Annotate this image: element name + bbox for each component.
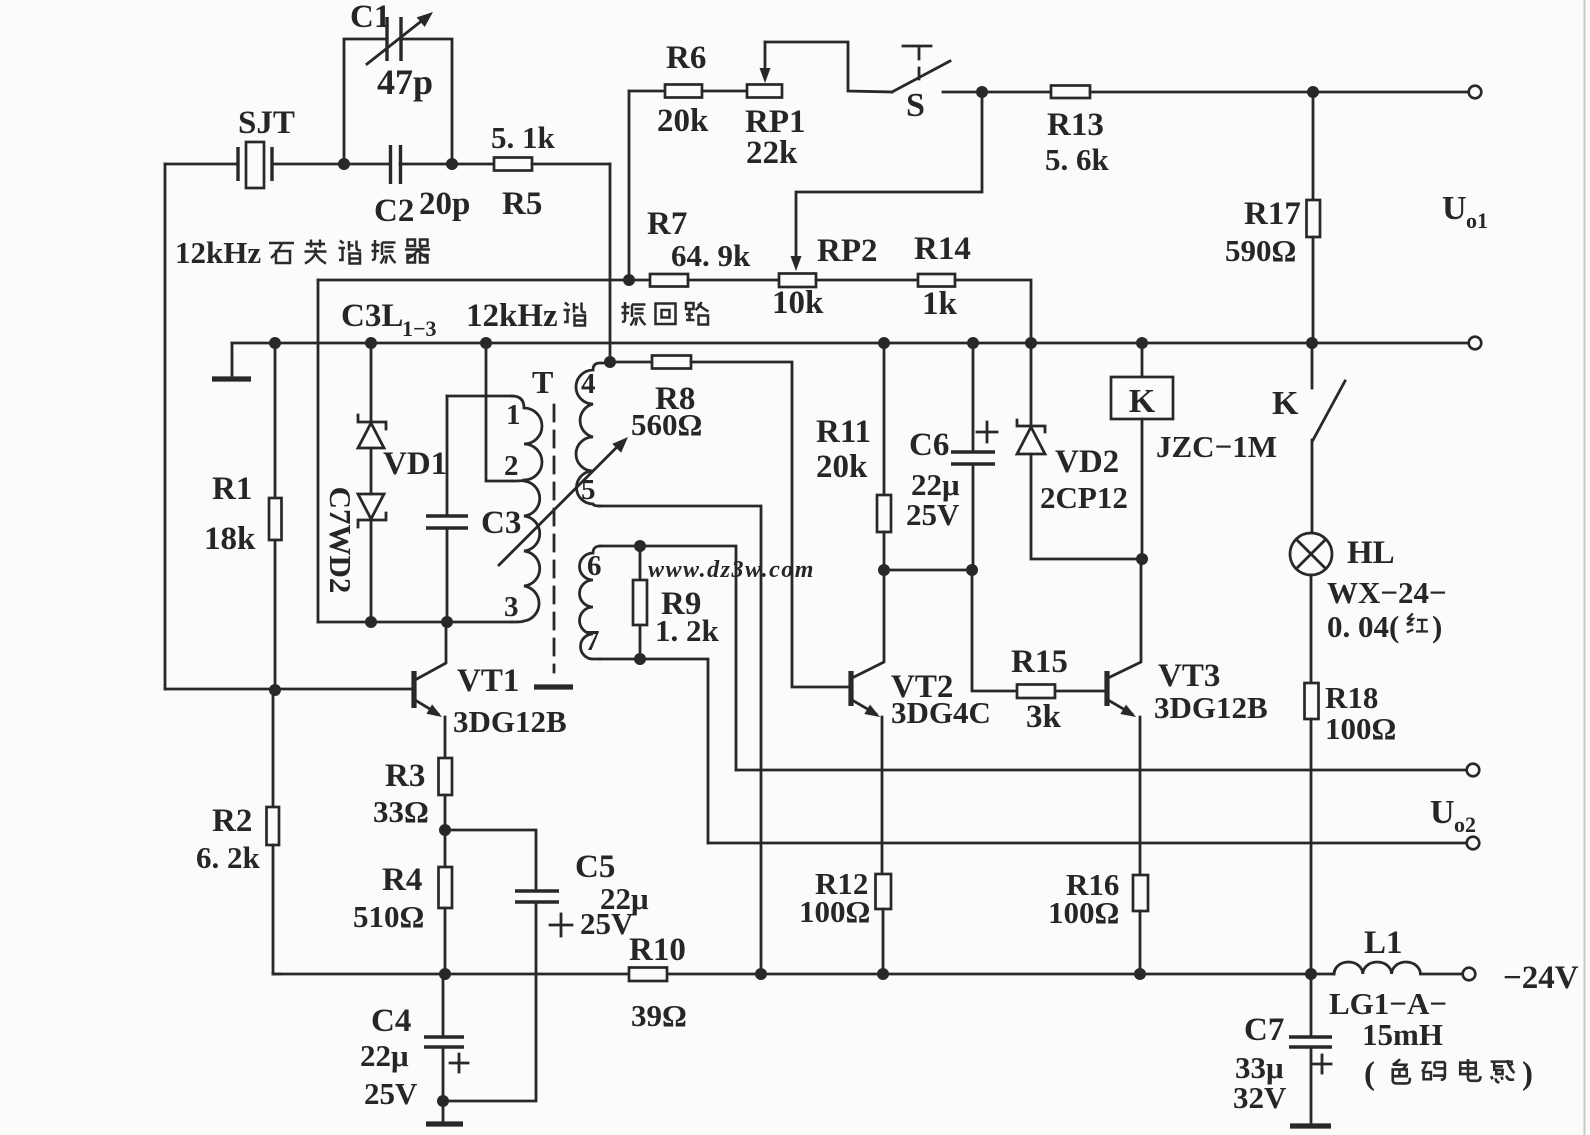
svg-text:T: T <box>532 364 553 400</box>
resistor R9 <box>633 580 647 625</box>
capacitor C1 variable arrow <box>367 19 424 64</box>
node R17 top junction dot <box>1307 86 1319 98</box>
svg-text:R2: R2 <box>212 803 252 839</box>
svg-text:6. 2k: 6. 2k <box>196 840 261 875</box>
svg-text:VD2: VD2 <box>1055 444 1119 480</box>
svg-text:R14: R14 <box>914 231 971 267</box>
relay K coil box <box>1111 377 1173 419</box>
svg-text:LG1−A−: LG1−A− <box>1329 986 1447 1021</box>
svg-text:39Ω: 39Ω <box>631 998 687 1033</box>
wire bottom rail <box>273 973 1334 976</box>
wire VD1 bottom lead <box>370 520 373 622</box>
svg-text:K: K <box>1129 383 1156 420</box>
node bus VD2 dot <box>1025 337 1037 349</box>
transistor VT2 collector <box>852 570 884 678</box>
wire VD1 middle <box>370 448 373 494</box>
wire Uo2 lower line <box>708 842 1467 845</box>
wire left feedback vertical <box>164 164 167 689</box>
wire node A to C2 <box>344 163 390 166</box>
svg-text:20p: 20p <box>419 186 470 222</box>
transistor VT1 base bar <box>411 671 416 708</box>
wire C3 bottom lead <box>446 528 449 622</box>
svg-text:5: 5 <box>581 474 596 506</box>
svg-text:25V: 25V <box>906 497 960 532</box>
resistor R15 <box>1017 685 1055 699</box>
terminal bus right circle <box>1469 337 1482 350</box>
resistor R11 <box>877 495 891 532</box>
label hong <box>1407 613 1428 632</box>
resistor R1 <box>269 498 282 540</box>
inductor T secondary winding pins 6-7 <box>580 546 601 659</box>
diode VD2 cathode bar <box>1017 420 1045 432</box>
svg-text:C1: C1 <box>350 0 390 35</box>
svg-text:100Ω: 100Ω <box>799 894 870 929</box>
svg-text:560Ω: 560Ω <box>631 407 702 442</box>
terminal Uo2 upper circle <box>1467 764 1480 777</box>
svg-text:3DG12B: 3DG12B <box>453 704 567 739</box>
svg-text:1k: 1k <box>922 286 958 322</box>
wire HL to R18 <box>1310 575 1313 683</box>
svg-text:JZC−1M: JZC−1M <box>1156 429 1277 464</box>
lamp HL circle <box>1290 533 1332 575</box>
node bus contact K dot <box>1306 337 1318 349</box>
wire R11 top lead <box>883 343 886 495</box>
wire R17 bottom lead <box>1312 237 1315 343</box>
node R11 bottom dot <box>878 564 890 576</box>
label zhenhuilu <box>622 302 646 326</box>
wire R15 to VT3 base <box>1055 690 1105 693</box>
node R16 rail dot <box>1134 968 1146 980</box>
terminal Uo2 lower circle <box>1467 837 1480 850</box>
wire pin1 horizontal <box>447 395 512 398</box>
svg-text:18k: 18k <box>204 521 256 557</box>
transistor VT3 base bar <box>1104 671 1109 706</box>
wire R7 to RP2 <box>688 279 779 282</box>
switch K contact stub <box>1311 343 1314 388</box>
wire relay K bottom lead <box>1141 419 1144 559</box>
svg-text:0. 04(: 0. 04( <box>1327 609 1399 644</box>
node R12 rail dot <box>877 968 889 980</box>
diode VD1 upper zener bar <box>358 415 386 429</box>
wire C4 top lead <box>442 974 445 1037</box>
svg-text:): ) <box>1522 1056 1533 1092</box>
wire R2 top lead <box>272 690 275 807</box>
svg-text:C6: C6 <box>909 427 949 463</box>
wire S right contact <box>943 91 982 94</box>
wire R5 drop vertical <box>609 164 612 362</box>
svg-text:WX−24−: WX−24− <box>1327 575 1447 610</box>
svg-text:10k: 10k <box>772 285 824 321</box>
svg-text:64. 9k: 64. 9k <box>671 238 751 273</box>
diode VD1 lower zener triangle <box>358 494 384 519</box>
svg-text:15mH: 15mH <box>1362 1017 1443 1052</box>
node bus C6 dot <box>967 337 979 349</box>
node bus VD1 dot <box>365 337 377 349</box>
label xie tank <box>564 303 587 326</box>
svg-text:R13: R13 <box>1047 107 1104 143</box>
svg-text:RP2: RP2 <box>817 233 878 269</box>
svg-text:100Ω: 100Ω <box>1325 711 1396 746</box>
capacitor C4 plus sign <box>450 1062 468 1065</box>
resistor R3 <box>439 758 453 795</box>
transistor VT3 emitter <box>1108 700 1132 714</box>
svg-text:25V: 25V <box>580 906 634 941</box>
svg-text:6: 6 <box>587 550 602 582</box>
wire pin4 to R8 <box>610 361 652 364</box>
capacitor C1 plates <box>385 17 388 61</box>
wire R5 to drop corner <box>532 163 610 166</box>
ground main left stub <box>231 343 234 375</box>
svg-text:U: U <box>1430 794 1455 831</box>
svg-text:R10: R10 <box>629 932 686 968</box>
wire C7 bottom lead <box>1310 1047 1313 1122</box>
potentiometer RP1 wiper arrow <box>764 42 767 70</box>
label shiyingxiezhenqi <box>269 243 294 263</box>
node VD1 tank-rail dot <box>365 616 377 628</box>
wire R7 line left segment <box>318 279 650 282</box>
svg-text:−24V: −24V <box>1503 960 1579 996</box>
wire VD2 top lead <box>1030 343 1033 426</box>
wire RP2 to R14 <box>816 279 918 282</box>
wire R11 bottom lead <box>883 532 886 570</box>
resistor R6 <box>665 85 702 98</box>
node R1 base-wire dot <box>269 684 281 696</box>
switch K contact blade <box>1313 381 1345 440</box>
svg-text:U: U <box>1442 190 1467 227</box>
resistor R16 <box>1133 875 1148 911</box>
wire top line to Uo1 terminal <box>1313 91 1469 94</box>
transistor VT1 collector <box>415 622 446 680</box>
capacitor C7 plates <box>1289 1035 1332 1038</box>
node C7 rail dot <box>1305 968 1317 980</box>
wire VT2 emitter lead <box>881 717 884 874</box>
svg-text:510Ω: 510Ω <box>353 899 424 934</box>
capacitor C7 plus sign <box>1313 1063 1331 1066</box>
resistor R10 <box>629 968 667 982</box>
wire C3 top lead <box>446 396 449 516</box>
svg-text:2CP12: 2CP12 <box>1040 480 1128 515</box>
potentiometer RP1 body <box>747 85 782 98</box>
resistor R8 <box>652 356 691 369</box>
svg-text:(: ( <box>1364 1056 1375 1092</box>
ground C4 bar <box>426 1121 463 1126</box>
inductor L1 <box>1334 962 1463 974</box>
wire R6 branch vertical <box>628 91 631 280</box>
svg-text:7: 7 <box>585 625 600 657</box>
svg-text:2: 2 <box>504 450 519 482</box>
svg-text:C5: C5 <box>575 849 615 885</box>
wire R1 top lead <box>274 343 277 498</box>
resistor R9 top lead <box>639 546 642 580</box>
wire R3 to R4 <box>444 795 447 867</box>
svg-text:4: 4 <box>581 368 596 400</box>
scan edge artifact right <box>1584 0 1586 1135</box>
wire tank bottom rail <box>318 621 512 624</box>
node R9 top dot <box>634 540 646 552</box>
wire R6 branch top <box>629 90 665 93</box>
node R4 rail dot <box>439 968 451 980</box>
inductor T secondary winding pins 4-5 <box>576 363 610 506</box>
terminal -24V circle <box>1463 968 1476 981</box>
svg-text:32V: 32V <box>1233 1080 1287 1115</box>
node pin4 junction dot <box>604 356 616 368</box>
svg-text:47p: 47p <box>377 62 433 102</box>
resistor R13 <box>1051 86 1090 99</box>
svg-text:C2: C2 <box>374 193 414 229</box>
wire VD1 top lead <box>370 343 373 422</box>
node R9 bottom dot <box>634 653 646 665</box>
svg-text:www.dz3w.com: www.dz3w.com <box>648 557 815 583</box>
svg-text:1. 2k: 1. 2k <box>655 613 720 648</box>
wire C5 bottom lead <box>443 902 536 1101</box>
diode VD1 lower zener bar <box>358 513 386 527</box>
svg-text:12kHz: 12kHz <box>175 235 261 270</box>
svg-text:3: 3 <box>504 591 519 623</box>
svg-text:3k: 3k <box>1026 699 1062 735</box>
svg-text:R17: R17 <box>1244 196 1301 232</box>
wire R16 bottom lead <box>1139 911 1142 974</box>
svg-text:100Ω: 100Ω <box>1048 895 1119 930</box>
svg-text:L1: L1 <box>1364 925 1403 961</box>
lamp HL cross <box>1296 539 1326 569</box>
capacitor C6 plus sign <box>977 431 997 434</box>
capacitor C3 plates <box>426 514 468 517</box>
transistor VT2 base bar <box>848 671 853 706</box>
svg-text:33Ω: 33Ω <box>373 794 429 829</box>
resistor R18 <box>1305 683 1319 719</box>
node bus R1 dot <box>269 337 281 349</box>
svg-text:R11: R11 <box>816 414 871 450</box>
svg-text:o2: o2 <box>1454 812 1476 837</box>
svg-text:R6: R6 <box>666 40 706 76</box>
resistor R7 <box>650 274 688 287</box>
transistor VT1 emitter <box>415 700 438 714</box>
transformer T core dashed line <box>553 405 556 672</box>
svg-text:SJT: SJT <box>238 105 295 141</box>
inductor T adjustment arrow <box>499 445 619 565</box>
wire pin5 to Uo2 upper drop <box>600 506 761 974</box>
wire Uo2 upper line <box>736 769 1467 772</box>
svg-text:5. 6k: 5. 6k <box>1045 142 1110 177</box>
svg-text:o1: o1 <box>1466 208 1488 233</box>
node S output junction dot <box>976 86 988 98</box>
wire R11-C6 bottom link <box>884 569 972 572</box>
svg-text:): ) <box>1432 609 1442 644</box>
svg-text:22k: 22k <box>746 135 798 171</box>
resistor R5 <box>494 158 532 171</box>
svg-text:C7: C7 <box>1244 1012 1284 1048</box>
wire R17 top lead <box>1312 92 1315 200</box>
transformer T core ground bar <box>534 684 573 689</box>
wire pin7 line <box>600 659 708 843</box>
wire R12 bottom lead <box>882 909 885 974</box>
svg-text:HL: HL <box>1347 535 1395 571</box>
potentiometer RP2 body <box>779 274 816 288</box>
resistor R2 <box>267 807 280 845</box>
svg-text:R5: R5 <box>502 186 542 222</box>
node C4 bottom dot <box>437 1095 449 1107</box>
node C6 bottom dot <box>966 564 978 576</box>
wire crystal to node A <box>272 163 344 166</box>
inductor T primary winding pins 1-2-3 <box>512 396 542 622</box>
svg-text:R4: R4 <box>382 862 422 898</box>
wire VD2 bottom lead <box>1031 454 1142 559</box>
svg-text:S: S <box>906 87 925 124</box>
wire C6 node to R15 <box>972 570 1017 691</box>
wire crystal top line left segment <box>165 163 238 166</box>
svg-text:R1: R1 <box>212 471 252 507</box>
node B junction dot <box>446 158 458 170</box>
switch S blade <box>892 61 950 92</box>
svg-text:3DG12B: 3DG12B <box>1154 690 1268 725</box>
svg-text:3DG4C: 3DG4C <box>891 695 991 730</box>
svg-text:R15: R15 <box>1011 644 1068 680</box>
node A junction dot <box>338 158 350 170</box>
wire R18 bottom lead <box>1310 719 1313 974</box>
wire R14 to corner and down to bus <box>955 280 1031 343</box>
wire relay K top lead <box>1141 343 1144 377</box>
node bus pin2 dot <box>480 337 492 349</box>
wire top line S to R13 <box>982 91 1051 94</box>
svg-text:K: K <box>1272 385 1299 422</box>
svg-text:C4: C4 <box>371 1003 411 1039</box>
svg-text:1−3: 1−3 <box>402 316 437 341</box>
wire pin6 line <box>600 546 736 770</box>
svg-text:1: 1 <box>506 399 521 431</box>
svg-text:25V: 25V <box>364 1076 418 1111</box>
resistor R4 <box>439 867 453 908</box>
resistor R14 <box>918 274 955 287</box>
diode VD1 upper zener triangle <box>358 423 384 448</box>
capacitor C2 plates <box>389 145 392 184</box>
potentiometer RP2 wiper arrow <box>791 256 802 271</box>
transistor VT2 emitter <box>852 700 876 714</box>
capacitor C5 plates <box>515 889 559 892</box>
terminal Uo1 circle <box>1469 86 1482 99</box>
svg-text:C7WD2: C7WD2 <box>323 487 358 594</box>
ground C7 bar <box>1290 1123 1331 1128</box>
node bus R11 dot <box>878 337 890 349</box>
wire C6 top lead <box>972 343 975 452</box>
resistor R17 <box>1307 200 1321 237</box>
wire main bus horizontal <box>232 342 1469 345</box>
wire RP1 wiper to switch S <box>765 42 892 92</box>
node R6-R7 junction dot <box>623 274 635 286</box>
wire C6 bottom lead <box>972 464 975 570</box>
wire R13 to R17 node <box>1090 91 1313 94</box>
wire K contact to HL <box>1311 440 1314 533</box>
wire VT1 base line <box>165 688 412 691</box>
wire bus to pin2 <box>486 343 512 481</box>
capacitor C6 plates <box>951 450 995 453</box>
svg-text:VT1: VT1 <box>457 663 519 699</box>
svg-text:R3: R3 <box>385 758 425 794</box>
switch S pushbutton stem dashed <box>918 48 921 86</box>
wire R4 bottom lead <box>444 908 447 974</box>
resistor R12 <box>876 874 892 909</box>
capacitor C1 loop wires <box>344 39 452 164</box>
svg-text:590Ω: 590Ω <box>1225 233 1296 268</box>
wire VT3 emitter lead <box>1139 717 1142 875</box>
diode VD2 triangle <box>1017 427 1045 454</box>
svg-text:5. 1k: 5. 1k <box>491 120 556 155</box>
svg-text:12kHz: 12kHz <box>466 298 558 334</box>
wire R1 bottom lead <box>274 540 277 690</box>
wire R2 bottom lead to rail <box>273 845 280 974</box>
svg-text:C3: C3 <box>481 505 521 541</box>
crystal SJT <box>236 147 239 181</box>
capacitor C4 plates <box>424 1035 464 1038</box>
node C3 tank-rail dot <box>441 616 453 628</box>
svg-text:22μ: 22μ <box>360 1038 409 1073</box>
node VD2-relay dot <box>1136 553 1148 565</box>
wire C2 to R5 <box>400 163 494 166</box>
node R3-R4-C5 dot <box>439 824 451 836</box>
wire S drop to RP2 wiper <box>796 92 982 258</box>
svg-text:C3L: C3L <box>341 298 403 334</box>
wire tank label box left edge <box>317 280 320 622</box>
switch S pushbutton actuator bar <box>903 45 931 48</box>
wire R8 to VT2 base <box>691 362 849 687</box>
capacitor C5 plus sign <box>550 924 572 927</box>
svg-text:VT3: VT3 <box>1158 658 1220 694</box>
ground main left bar <box>212 376 251 381</box>
resistor R9 bottom lead <box>639 625 642 659</box>
transistor VT3 collector <box>1108 559 1141 678</box>
svg-text:R18: R18 <box>1325 680 1378 715</box>
svg-text:VD1: VD1 <box>383 446 447 482</box>
svg-text:R7: R7 <box>647 206 687 242</box>
ground C4 stub <box>442 1101 445 1121</box>
svg-text:20k: 20k <box>816 449 868 485</box>
svg-text:20k: 20k <box>657 103 709 139</box>
wire C7 top lead <box>1310 974 1313 1037</box>
node bus relay dot <box>1136 337 1148 349</box>
wire VT1 emitter lead <box>444 717 447 758</box>
wire C4 bottom lead <box>442 1047 445 1101</box>
node pin5 rail dot <box>755 968 767 980</box>
wire C5 top lead <box>445 830 536 891</box>
wire R6 to RP1 <box>702 90 747 93</box>
